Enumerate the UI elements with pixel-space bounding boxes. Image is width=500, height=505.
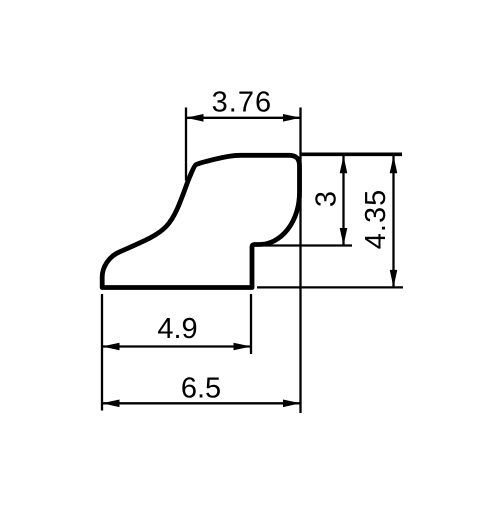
svg-text:3.76: 3.76: [212, 87, 272, 119]
svg-text:4.9: 4.9: [157, 313, 197, 345]
bottom right extension line (y=287.5): [257, 286, 403, 288]
extension line left of dim 3.76 (x=186): [185, 108, 187, 181]
top extension line (y=155.3): [300, 153, 402, 157]
dimension line 4.9: [102, 343, 251, 351]
dimension line 4.35 (vertical): [390, 156, 398, 288]
dimension line 3 (vertical): [340, 156, 348, 246]
dimension line 3.76: [186, 114, 301, 122]
extension line for 4.9 (x=251): [250, 294, 252, 354]
dimension line 6.5: [102, 400, 301, 408]
moulding profile outline: [102, 155, 299, 287]
svg-text:3: 3: [311, 191, 343, 207]
svg-text:4.35: 4.35: [360, 189, 392, 249]
long right extension line (x=300): [299, 108, 301, 414]
svg-text:6.5: 6.5: [181, 373, 221, 405]
extension line under step (y=245): [264, 244, 352, 246]
left bottom extension line (x=102): [101, 294, 103, 411]
